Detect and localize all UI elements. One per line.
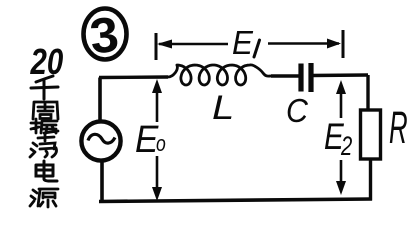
E1 dimension right tick [342,30,345,58]
E0 dimension arrow [152,79,162,201]
right wire top [366,75,369,110]
resistor R box [361,110,381,159]
inductor L [168,65,271,85]
char dian [36,161,57,181]
char yuan [30,189,58,207]
char dang [30,134,57,157]
AC source circle [81,121,120,160]
char qian [31,76,58,99]
left wire bottom [100,161,104,202]
svg-text:R: R [389,102,408,152]
svg-text:L: L [212,88,234,126]
E1 dimension line with arrows [157,39,341,49]
capacitor C plates [298,64,303,92]
top wire [99,75,368,78]
left wire top [98,78,102,122]
bottom wire [99,199,372,202]
svg-text:3: 3 [87,6,121,64]
svg-text:2: 2 [340,131,352,162]
figure number circle 3 [84,6,127,64]
char zhen [31,119,58,133]
svg-text:E: E [232,24,253,61]
char zhou [33,102,58,119]
AC source sine [88,134,115,143]
E2 dimension arrow [336,80,346,195]
svg-text:o: o [156,132,166,156]
E1 dimension left tick [155,33,158,60]
svg-text:C: C [286,92,309,129]
resistor bottom wire [369,159,372,201]
